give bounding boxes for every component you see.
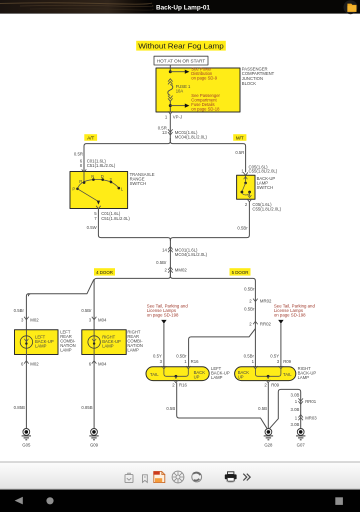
svg-text:D: D [101,174,104,179]
svg-text:2: 2 [264,383,267,388]
reference note: See Power Distribution on page SD-9 [191,66,218,80]
svg-text:MR02: MR02 [260,299,272,304]
svg-text:M04: M04 [98,317,107,322]
svg-text:G05: G05 [22,442,31,447]
lamp L4: right back-up lamp (5 door) pill [235,367,296,381]
label: LEFT REAR COMBINATION LAMP [60,329,76,352]
svg-text:A/T: A/T [87,135,94,140]
wire: branch to fuse details reference [170,105,185,107]
svg-text:13: 13 [162,130,167,135]
wire 0.5Y to left tail [163,323,165,366]
lamp L3: left back-up lamp (5 door) pill [146,367,209,381]
svg-text:LAMP: LAMP [35,344,47,349]
svg-text:3.0B: 3.0B [291,407,300,412]
svg-text:2: 2 [249,322,252,327]
svg-text:MR03: MR03 [305,415,317,420]
power source label "HOT AT ON OR START" [154,56,208,65]
wire: main feed 0.5R below junction block [169,114,171,141]
svg-text:on page SD-198: on page SD-198 [274,313,306,318]
svg-text:1: 1 [295,399,298,404]
junction block U1: passenger compartment junction block [156,68,240,112]
svg-text:LAMP: LAMP [102,344,114,349]
wire: rejoin of A/T and M/T branches [98,235,249,241]
fuse F1: FUSE 1 10A [168,84,173,95]
svg-text:Without Rear Fog Lamp: Without Rear Fog Lamp [138,41,224,50]
wire: fuse to lower junction [169,101,171,112]
svg-text:0.5R: 0.5R [235,150,244,155]
svg-text:2: 2 [165,267,168,272]
reference note: See Passenger Compartment Fuse Details on page SD-18 [191,93,220,112]
reference note: See Tail lamps (right) [274,304,316,318]
svg-text:M04: M04 [98,361,107,366]
wire: into R contact [83,172,85,183]
svg-text:LAMP: LAMP [298,375,310,380]
ground G28 [264,429,273,448]
wire 0.5Br from back-up lamp switch [248,202,250,235]
wire: split to A/T and M/T branches [84,138,246,172]
svg-text:LAMP: LAMP [127,347,139,352]
svg-text:7: 7 [94,216,97,221]
contact position labels [72,174,123,191]
svg-text:SWITCH: SWITCH [130,181,147,186]
svg-text:0.5B: 0.5B [258,406,267,411]
APP TOP BAR [0,0,360,14]
toolbar icon: print [225,472,237,483]
svg-text:3: 3 [21,317,24,322]
svg-text:BLOCK: BLOCK [242,81,256,86]
ground G09 [89,429,98,448]
svg-text:MC04(1.8L/2.0L): MC04(1.8L/2.0L) [175,134,208,139]
svg-text:3: 3 [89,317,92,322]
connector: 1 MR03 [298,415,303,421]
wire 3.0B bridge from G28 junction through RR01/MR03 to G07 [270,389,301,428]
toolbar icon: bookmark [143,475,148,483]
svg-text:8: 8 [80,163,83,168]
svg-text:M02: M02 [30,361,39,366]
lamp L2: right back-up lamp box [82,330,126,355]
wire: branch to power distribution reference [170,71,185,73]
connector: 6 M02 [24,361,29,364]
svg-text:5 DOOR: 5 DOOR [232,270,249,275]
svg-text:4 DOOR: 4 DOOR [96,270,113,275]
switch wiper arm with arrow [78,189,98,201]
svg-text:0.5Br: 0.5Br [244,306,255,311]
svg-text:MC04(1.8L/2.0L): MC04(1.8L/2.0L) [175,252,208,257]
connector: 3 M02 [24,317,29,320]
node: junction dot A [169,70,172,73]
svg-text:C51(1.8L/2.0L): C51(1.8L/2.0L) [101,216,130,221]
wire 0.5W from transaxle range switch [97,209,99,236]
reference note: See Tail lamps (left) [147,304,189,318]
svg-text:0.5Br: 0.5Br [244,286,255,291]
svg-text:LAMP: LAMP [211,375,223,380]
connector: inline connector 13 MC01/MC04 [168,129,173,135]
wire 0.5Y to right tail [280,323,282,366]
connector: 2 MR02 [253,299,258,302]
svg-text:TAIL: TAIL [150,372,159,377]
BOTTOM TOOLBAR [0,462,360,490]
svg-text:0.5W: 0.5W [87,225,98,230]
svg-text:Back-Up Lamp-01: Back-Up Lamp-01 [156,4,210,11]
svg-text:VP-J: VP-J [173,115,182,120]
wire 0.5B right pill to ground G28 [267,383,269,429]
svg-text:SWITCH: SWITCH [257,185,274,190]
svg-text:3: 3 [160,359,163,364]
svg-text:MM02: MM02 [175,267,188,272]
connector: inline connector above fuse [168,79,173,85]
svg-text:1: 1 [252,359,255,364]
wire: jog to left rear lamp [28,279,94,296]
label: PASSENGER COMPARTMENT JUNCTION BLOCK [242,66,275,85]
connector: back-up lamp switch output 2 C05/C55 [247,199,252,202]
svg-text:0.5Br: 0.5Br [156,260,167,265]
svg-text:2: 2 [249,299,252,304]
svg-text:3: 3 [277,359,280,364]
svg-text:C55(1.8L/2.0L): C55(1.8L/2.0L) [249,169,278,174]
switch contacts arc P R N D 2 L [78,179,119,188]
wire: split to 4 DOOR and 5 DOOR branches [94,272,255,330]
svg-text:TAIL: TAIL [283,372,292,377]
svg-text:0.85B: 0.85B [14,405,25,410]
svg-text:10A: 10A [176,88,184,93]
svg-text:3.0B: 3.0B [291,393,300,398]
svg-text:1: 1 [165,115,168,120]
svg-text:0.5R: 0.5R [74,152,83,157]
connector: 3 M04 [92,317,97,320]
svg-text:0.5Br: 0.5Br [14,308,25,313]
svg-text:G28: G28 [264,442,273,447]
label: RIGHT BACK-UP LAMP (5 door) [298,366,317,380]
branch tag 5 DOOR [230,268,251,275]
svg-text:N: N [91,174,94,179]
toolbar icon: wheel [172,471,184,483]
svg-text:HOT AT ON OR START: HOT AT ON OR START [157,59,206,64]
label: RIGHT REAR COMBINATION LAMP [127,329,143,352]
svg-text:M/T: M/T [236,135,244,140]
svg-text:6: 6 [89,361,92,366]
connector: 2 RR02 [253,321,258,324]
wire 0.5B left pill to ground G28 [177,383,267,429]
connector: 1 RR01 [298,398,303,404]
wire: back-up feed splits to both 5-door lamps [189,328,256,367]
branch tag 4 DOOR [94,268,115,275]
svg-text:2: 2 [172,383,175,388]
svg-text:14: 14 [162,247,167,252]
svg-text:on page SD-198: on page SD-198 [147,313,179,318]
svg-text:on page SD-9: on page SD-9 [191,75,218,80]
switch S2: back-up lamp switch box [237,175,255,199]
toolbar icon: rotate [192,472,202,482]
svg-text:UP: UP [194,374,200,379]
connector: 2 MM02 [168,267,173,273]
branch tag M/T [233,134,246,141]
svg-text:1: 1 [184,359,187,364]
wire: feed into junction block [169,65,171,72]
svg-text:R09: R09 [283,359,291,364]
ANDROID NAV BAR [0,490,360,512]
svg-text:R09: R09 [271,383,279,388]
label: LEFT BACK-UP LAMP (5 door) [211,366,230,380]
connector: transaxle switch output 5/7 C01/C51 [96,206,101,209]
node: junction dot B [169,104,172,107]
svg-text:C55(1.8L/2.0L): C55(1.8L/2.0L) [252,207,281,212]
branch tag A/T [84,134,97,141]
node: tail feed arrow (right) [278,320,283,324]
svg-text:1: 1 [295,415,298,420]
node: tail feed arrow (left) [161,320,166,324]
svg-text:UP: UP [238,374,244,379]
svg-text:R16: R16 [179,383,187,388]
svg-text:0.85B: 0.85B [81,405,92,410]
svg-text:0.5Br: 0.5Br [81,308,92,313]
connector: 2 R09 [266,380,270,383]
connector: inline connector 14 MC01/MC04 [168,247,173,253]
svg-text:LAMP: LAMP [60,347,72,352]
svg-text:C51(1.8L/2.0L): C51(1.8L/2.0L) [87,163,116,168]
connector: 6 M04 [92,361,97,364]
svg-text:G07: G07 [297,442,306,447]
svg-text:G09: G09 [90,442,99,447]
svg-text:3.0B: 3.0B [291,422,300,427]
toolbar icon: more chevrons [243,474,250,481]
switch S1: transaxle range switch box [70,172,128,209]
svg-text:RR01: RR01 [305,399,317,404]
svg-text:on page SD-18: on page SD-18 [191,107,220,112]
svg-text:0.5B: 0.5B [166,406,175,411]
svg-text:P: P [72,187,75,192]
connector: inline connector below fuse [168,96,173,102]
switch S2 internals [245,175,247,181]
svg-text:RR02: RR02 [260,322,272,327]
lamp L1: left back-up lamp box [15,330,59,355]
wire 0.85B to ground G05 [25,355,27,429]
svg-text:R: R [79,179,82,184]
svg-text:6: 6 [21,361,24,366]
svg-text:R16: R16 [191,359,199,364]
wire 0.85B to ground G09 [93,355,95,429]
toolbar icon: document (active) [153,471,164,482]
svg-text:M02: M02 [30,317,39,322]
ground G07 [296,429,305,448]
connector: junction block output terminal 1 VP-J [168,111,173,114]
toolbar icon: import box [125,473,133,482]
connector: 2 R16 [174,380,178,383]
diagram title highlight "Without Rear Fog Lamp" [136,41,226,51]
ground G05 [22,429,31,448]
svg-text:0.5Br: 0.5Br [237,225,248,230]
svg-text:2: 2 [245,202,248,207]
